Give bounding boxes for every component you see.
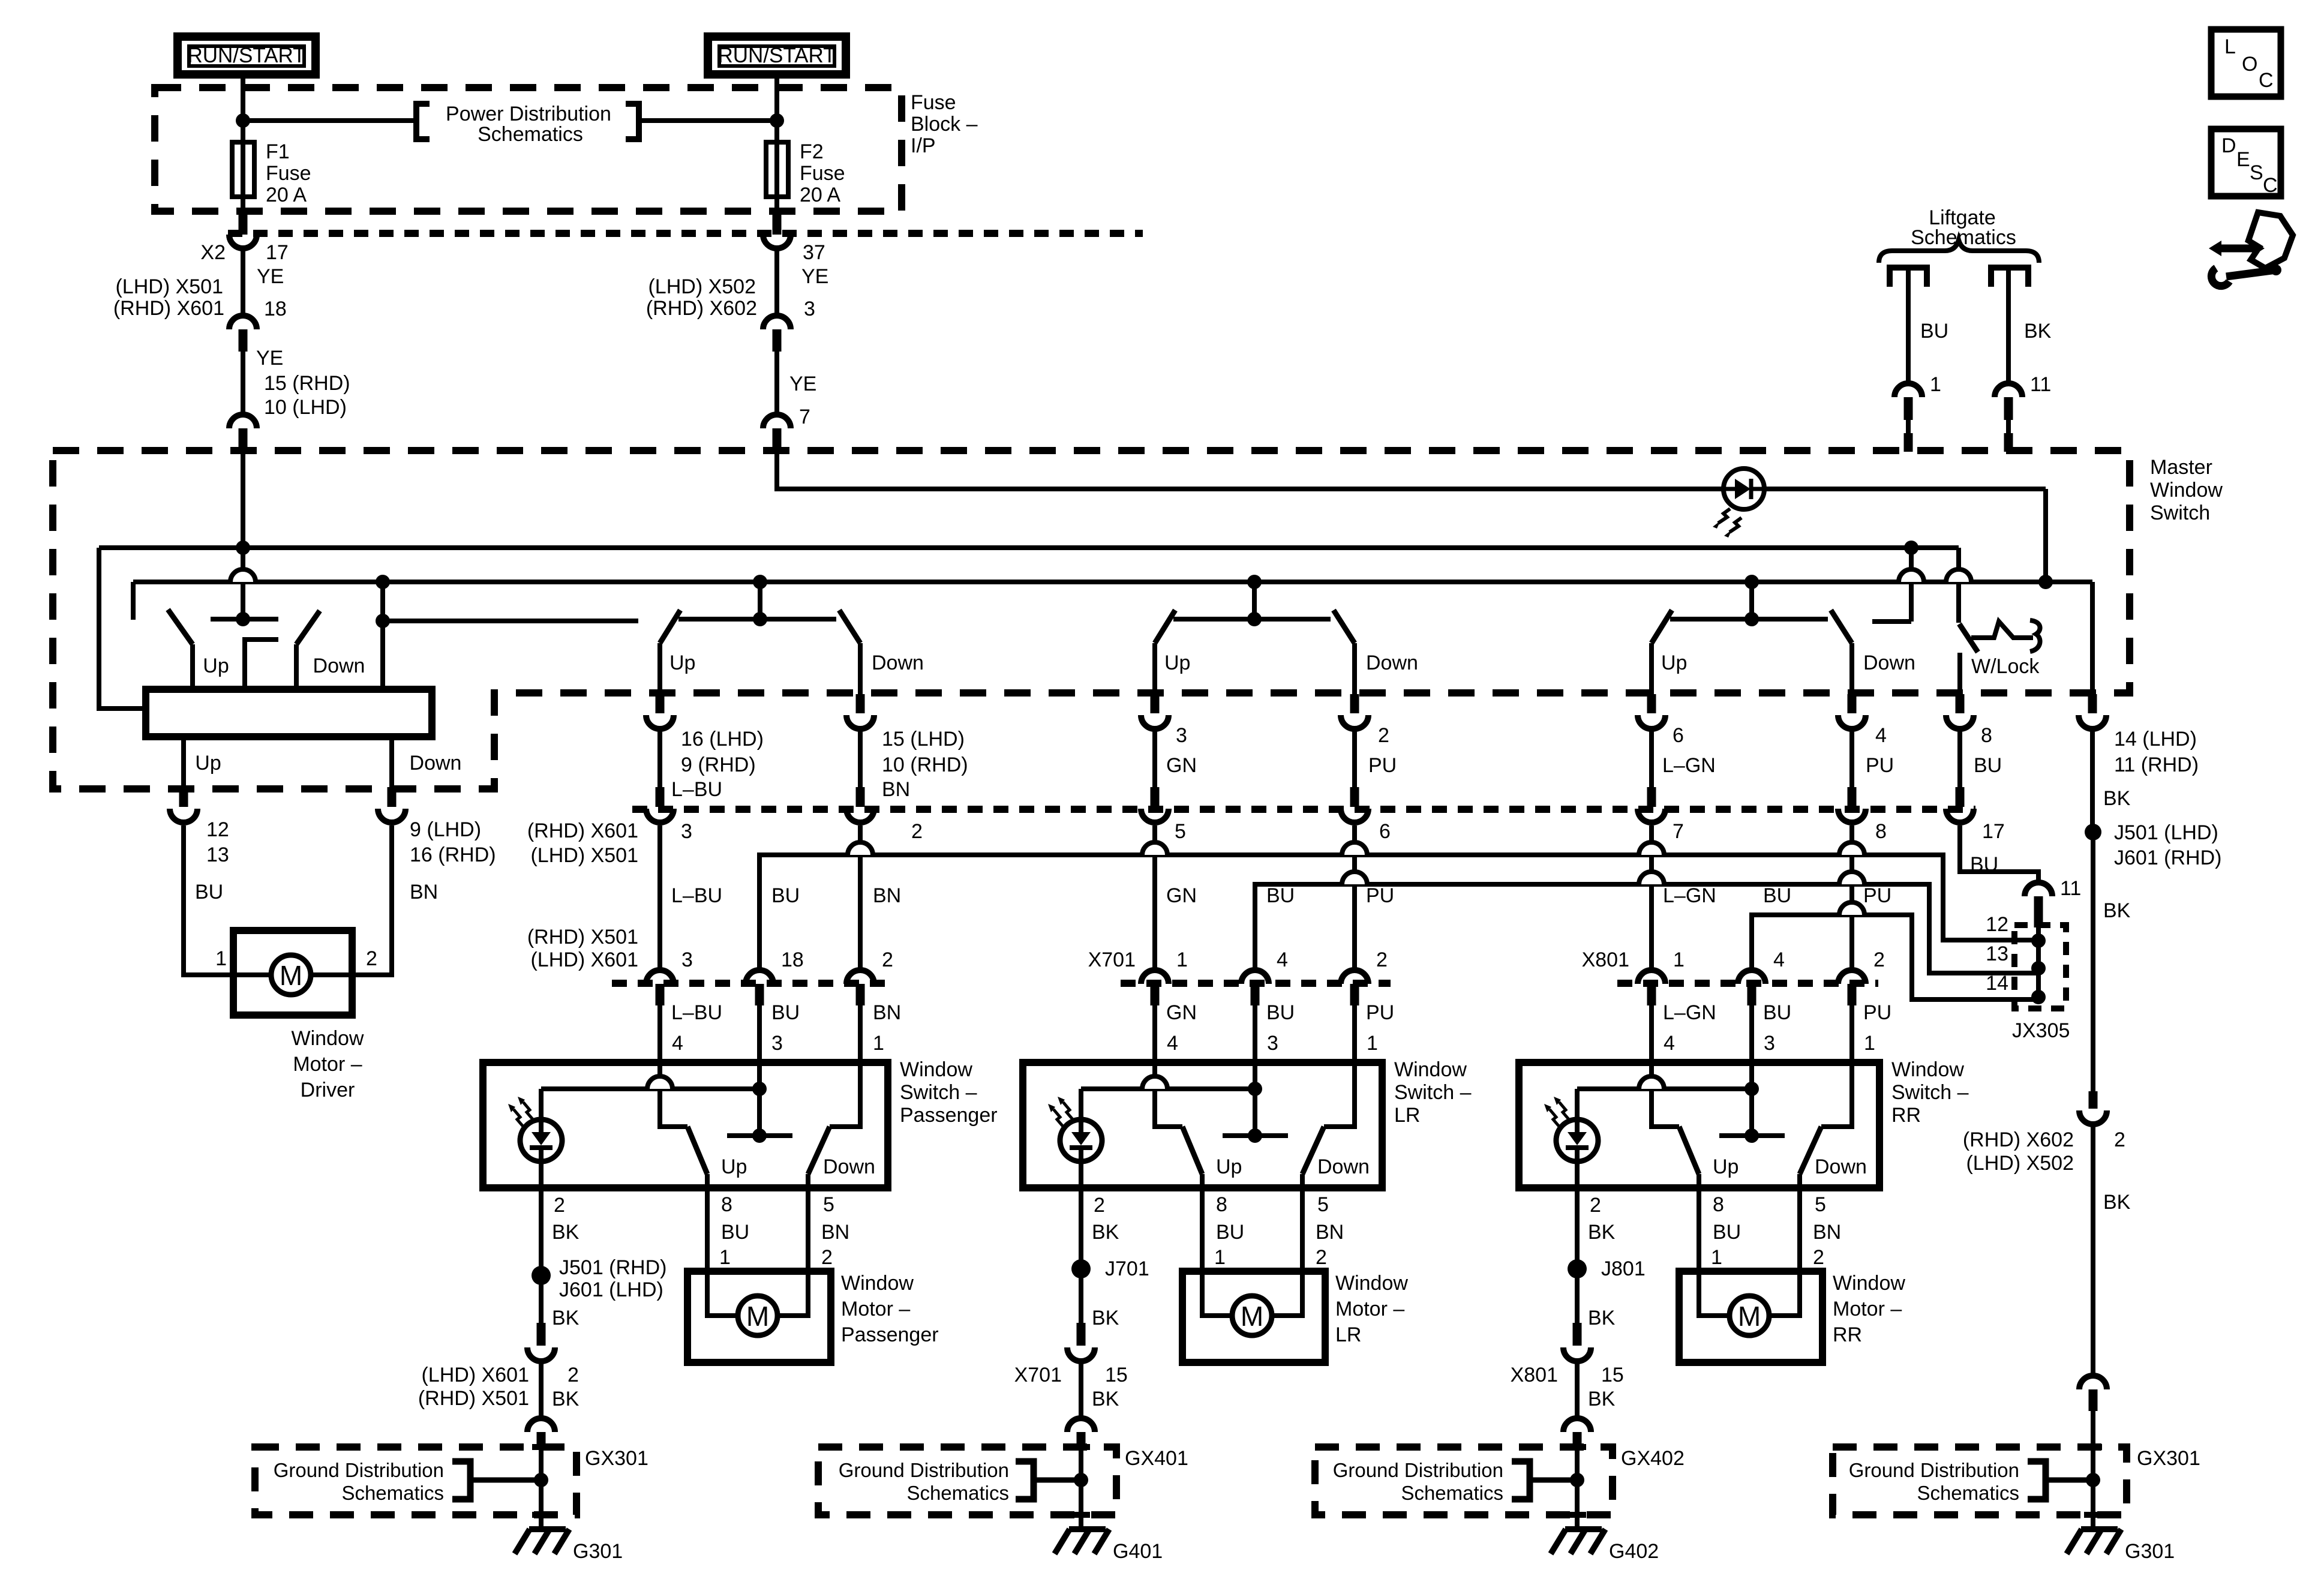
W/Lock latch symbol: [1971, 622, 2033, 638]
connector (RHD) X602 / (LHD) X502 pin 2: [2089, 1091, 2098, 1109]
svg-text:17: 17: [266, 241, 289, 264]
connector row 2 X801 dashed line (RR): [1617, 980, 1878, 987]
svg-text:E: E: [2236, 148, 2250, 171]
svg-text:(RHD) X601: (RHD) X601: [113, 297, 224, 320]
svg-text:GN: GN: [1166, 754, 1197, 777]
wire RR down contact: [1821, 1062, 1852, 1127]
connector row1 pin 3: [656, 787, 665, 807]
legend box LOC: [2211, 29, 2281, 97]
connector driver down pin: [388, 787, 397, 807]
switch arm RR Down: [1800, 1127, 1821, 1174]
svg-text:GX301: GX301: [2137, 1447, 2200, 1470]
switch arm passenger Up (master): [660, 610, 680, 643]
wire bus2 right drop: [2090, 582, 2095, 694]
window motor driver box: [233, 930, 352, 1015]
wire LED RR to pin 2: [1575, 1089, 1580, 1188]
connector into ground splice pack: [1563, 1418, 1591, 1432]
node junction bus2 LR feed: [1247, 575, 1262, 589]
window motor RR box: [1679, 1271, 1822, 1362]
svg-text:4: 4: [1773, 948, 1785, 971]
svg-text:BU: BU: [1974, 754, 2002, 777]
svg-text:BU: BU: [1763, 1001, 1791, 1024]
liftgate wire into master switch: [1906, 420, 1911, 436]
wire F1 to connector X2: [241, 197, 245, 216]
svg-text:M: M: [746, 1301, 769, 1332]
connector pin at master switch bottom x=2753: [1647, 694, 1656, 713]
wire row2 into window switch x=3087: [1849, 1005, 1854, 1062]
switch arm LR Up: [1182, 1127, 1202, 1174]
svg-text:LR: LR: [1335, 1323, 1361, 1346]
svg-text:C: C: [2263, 174, 2278, 197]
svg-text:M: M: [1241, 1301, 1263, 1332]
wire LED Passenger to pin 2: [539, 1089, 544, 1188]
wire splice to connector: [539, 1275, 544, 1323]
svg-text:I/P: I/P: [911, 134, 936, 157]
wire passenger BU jumper to JX305 pin 12: [759, 855, 2038, 970]
svg-text:M: M: [1738, 1301, 1761, 1332]
svg-text:Switch: Switch: [2150, 502, 2210, 524]
svg-text:PU: PU: [1866, 754, 1894, 777]
ground G301: [529, 1526, 566, 1532]
wire row2 into window switch x=2258: [1352, 1005, 1357, 1062]
svg-text:2: 2: [821, 1246, 833, 1269]
svg-text:2: 2: [366, 947, 377, 970]
svg-text:16 (LHD): 16 (LHD): [681, 728, 764, 751]
RR contact segment: [1670, 617, 1828, 622]
svg-text:BK: BK: [2024, 320, 2052, 343]
switch arm driver Up: [168, 610, 193, 644]
svg-text:Motor –: Motor –: [293, 1053, 362, 1076]
wire BU from pin17 to connector 11: [1960, 825, 2038, 881]
connector driver up pin: [179, 787, 188, 807]
svg-text:2: 2: [882, 948, 893, 971]
svg-text:(LHD) X501: (LHD) X501: [530, 844, 638, 867]
svg-text:8: 8: [1875, 820, 1887, 843]
svg-text:Schematics: Schematics: [1917, 1482, 2019, 1504]
wire RR common: [1749, 1062, 1754, 1136]
svg-text:Driver: Driver: [301, 1079, 355, 1101]
svg-text:18: 18: [781, 948, 804, 971]
bus 2 (window feed bus): [133, 580, 2092, 584]
fuse block inner connector row X2/X502 dotted line: [228, 230, 1143, 237]
wire LED line drop to bus2: [2043, 489, 2048, 582]
svg-text:BU: BU: [1713, 1221, 1741, 1244]
wire bus2 drop to LR contact segment: [1252, 582, 1257, 619]
Passenger common T-bar: [727, 1133, 792, 1138]
connector row1 pin 17: [1956, 787, 1965, 807]
bracket for Power Distribution Schematics (left): [416, 104, 430, 139]
wire F1 into master switch down to bus: [241, 452, 245, 571]
svg-text:GX402: GX402: [1621, 1447, 1685, 1470]
LED Passenger switch: [520, 1119, 562, 1161]
svg-text:2: 2: [1316, 1246, 1327, 1269]
wire master pin to connector row 1 x=2258: [1352, 731, 1357, 787]
svg-text:Up: Up: [1164, 652, 1190, 674]
node junction LED-bus2: [2038, 575, 2053, 589]
svg-text:L–GN: L–GN: [1662, 754, 1716, 777]
svg-text:BU: BU: [195, 881, 223, 903]
svg-text:GX301: GX301: [585, 1447, 648, 1470]
wire row1 to row2 x=1925: [1152, 825, 1157, 970]
svg-text:(LHD) X601: (LHD) X601: [421, 1364, 529, 1386]
svg-text:Window: Window: [292, 1027, 364, 1050]
wire to power distribution bracket left: [243, 118, 416, 123]
LR contact segment: [1173, 617, 1331, 622]
wire F2 to connector X502: [774, 197, 779, 216]
svg-text:Up: Up: [195, 752, 221, 775]
svg-text:4: 4: [1875, 724, 1887, 747]
junction splice J801: [1568, 1259, 1587, 1278]
legend box DESC: [2211, 129, 2281, 196]
svg-text:7: 7: [1673, 820, 1684, 843]
svg-text:4: 4: [1277, 948, 1288, 971]
connector X2 pin 17: [239, 215, 248, 235]
connector row1 pin 2: [856, 787, 865, 807]
svg-text:11 (RHD): 11 (RHD): [2114, 754, 2199, 776]
svg-text:2: 2: [1378, 724, 1389, 747]
svg-text:14: 14: [1986, 972, 2008, 995]
svg-text:BK: BK: [552, 1221, 580, 1244]
connector (LHD) X502 / (RHD) X602 pin 3: [763, 316, 791, 329]
wire inside ground box: [539, 1447, 544, 1527]
svg-text:4: 4: [1167, 1032, 1178, 1055]
connector pin at master switch bottom x=1434: [856, 694, 865, 713]
svg-text:Up: Up: [669, 652, 695, 674]
LED RR switch: [1556, 1119, 1598, 1161]
svg-text:(RHD) X602: (RHD) X602: [646, 297, 757, 320]
svg-text:6: 6: [1673, 724, 1684, 747]
svg-text:6: 6: [1379, 820, 1391, 843]
connector row2 pin 18: [746, 970, 773, 984]
wire driver up to motor: [184, 825, 271, 975]
wire to body connector: [539, 1364, 544, 1416]
svg-text:2: 2: [1376, 948, 1388, 971]
power node RUN/START (right): [708, 37, 846, 74]
svg-text:Motor –: Motor –: [1833, 1298, 1902, 1320]
window switch LR box: [1023, 1062, 1382, 1188]
svg-text:GN: GN: [1166, 1001, 1197, 1024]
connector (LHD) X501 / (RHD) X601 pin 18: [229, 316, 257, 329]
svg-text:2: 2: [1813, 1246, 1824, 1269]
svg-text:Down: Down: [1815, 1155, 1867, 1178]
connector row1 pin 7: [1647, 787, 1656, 807]
svg-text:1: 1: [1930, 373, 1941, 396]
liftgate connector bracket left: [1890, 268, 1927, 287]
wire LED RR top link: [1577, 1086, 1752, 1091]
power node RUN/START (left): [178, 37, 316, 74]
svg-text:5: 5: [1175, 820, 1186, 843]
svg-text:S: S: [2250, 161, 2263, 184]
svg-text:Block –: Block –: [911, 113, 978, 136]
liftgate connector bracket right: [1991, 268, 2028, 287]
LED arrows (emission): [1718, 509, 1730, 523]
driver common link to rocker bar: [245, 640, 278, 689]
svg-text:Up: Up: [203, 655, 229, 677]
wire X2-17 to X501-18: [241, 251, 245, 314]
svg-text:Down: Down: [823, 1155, 875, 1178]
svg-text:1: 1: [1214, 1246, 1226, 1269]
switch arm passenger Down (master): [839, 610, 860, 643]
svg-text:Down: Down: [1317, 1155, 1370, 1178]
window motor Passenger box: [687, 1271, 831, 1362]
bracket ground distribution (right): [2028, 1461, 2046, 1499]
svg-text:L–GN: L–GN: [1663, 1001, 1716, 1024]
wire X502-37 to X502-3: [774, 251, 779, 314]
svg-text:Motor –: Motor –: [841, 1298, 910, 1320]
ground G301 (right): [2081, 1526, 2118, 1532]
switch arm RR Down (master): [1831, 610, 1852, 643]
svg-text:BK: BK: [2103, 787, 2131, 810]
svg-text:(RHD) X602: (RHD) X602: [1963, 1128, 2074, 1151]
svg-text:BN: BN: [882, 778, 910, 801]
passenger contact segment: [678, 617, 836, 622]
svg-text:RUN/START: RUN/START: [717, 44, 836, 67]
svg-text:Window: Window: [1335, 1272, 1408, 1295]
connector row2 pin 2: [1341, 970, 1368, 984]
node junction bus2 passenger feed: [753, 575, 767, 589]
svg-text:3: 3: [681, 820, 692, 843]
svg-text:L–GN: L–GN: [1663, 884, 1716, 907]
svg-text:Passenger: Passenger: [841, 1323, 939, 1346]
connector into GX301 splice pack (right): [2079, 1376, 2107, 1389]
wire driver rocker Down output: [389, 737, 394, 787]
connector pin into master window switch (driver feed): [229, 415, 257, 428]
node A junction dot at F1 feed: [236, 113, 250, 128]
svg-text:BK: BK: [2103, 1191, 2131, 1214]
LR common T-bar: [1223, 1133, 1288, 1138]
wire from RUN/START left to fuse F1: [241, 77, 245, 144]
LED LR switch: [1060, 1119, 1102, 1161]
wire splice to connector: [1079, 1269, 1083, 1323]
switch arm Passenger Up: [687, 1127, 707, 1174]
svg-text:Up: Up: [721, 1155, 747, 1178]
svg-text:(LHD) X501: (LHD) X501: [115, 275, 223, 298]
wire LR up contact: [1155, 1062, 1182, 1127]
svg-text:L–BU: L–BU: [671, 778, 722, 801]
svg-text:Switch –: Switch –: [900, 1081, 977, 1104]
wire into ground box right: [2091, 1411, 2095, 1527]
svg-text:5: 5: [823, 1193, 834, 1216]
wire row1 to row2 x=2753: [1649, 825, 1654, 970]
legend icon arrow and wrench: [2218, 245, 2256, 253]
svg-text:BK: BK: [1588, 1307, 1616, 1329]
svg-text:BK: BK: [1092, 1307, 1119, 1329]
wire to body connector: [1575, 1364, 1580, 1416]
connector row2 pin 4: [1241, 970, 1269, 984]
connector pin 11 (JX305): [2025, 882, 2052, 896]
svg-text:5: 5: [1815, 1193, 1826, 1216]
liftgate connector pin 1: [1894, 383, 1922, 397]
switch arm LR Down (master): [1334, 610, 1355, 643]
window switch RR box: [1519, 1062, 1879, 1188]
connector row1 pin 5: [1151, 787, 1160, 807]
svg-text:(RHD) X501: (RHD) X501: [418, 1387, 529, 1410]
svg-text:PU: PU: [1863, 884, 1891, 907]
svg-text:1: 1: [719, 1246, 731, 1269]
svg-text:BU: BU: [771, 884, 800, 907]
svg-text:1: 1: [215, 947, 227, 970]
svg-text:D: D: [2221, 134, 2236, 157]
svg-text:17: 17: [1982, 820, 2005, 843]
svg-text:12: 12: [1986, 913, 2008, 936]
wire master pin to connector row 1 x=1100: [657, 731, 662, 787]
wire driver down to motor: [311, 825, 392, 975]
svg-text:Up: Up: [1713, 1155, 1739, 1178]
connector row2 pin 3: [646, 970, 674, 984]
wire master pin to connector row 1 x=1925: [1152, 731, 1157, 787]
wire LR switch pin5 to motor: [1271, 1188, 1302, 1316]
connector row 2 X501/X601 dashed line (passenger): [612, 980, 894, 987]
svg-text:(RHD) X601: (RHD) X601: [527, 819, 638, 842]
wire inside ground box: [1575, 1447, 1580, 1527]
svg-text:1: 1: [1711, 1246, 1722, 1269]
fuse F1 20A: [232, 142, 254, 197]
svg-text:18: 18: [264, 298, 287, 320]
wire master pin to connector row 1 x=3087: [1849, 731, 1854, 787]
node junction bus2-driver down: [376, 575, 390, 589]
connector pin at master switch bottom x=2258: [1350, 694, 1359, 713]
svg-text:GX401: GX401: [1125, 1447, 1188, 1470]
wire row1 to row2 x=2258: [1352, 825, 1357, 970]
svg-text:O: O: [2242, 53, 2257, 76]
svg-text:2: 2: [911, 820, 923, 843]
svg-text:F1: F1: [266, 140, 290, 163]
svg-text:2: 2: [1094, 1194, 1105, 1217]
wire LR common: [1253, 1062, 1257, 1136]
liftgate wire BU: [1906, 268, 1911, 383]
svg-text:Schematics: Schematics: [341, 1482, 444, 1504]
svg-text:BU: BU: [1763, 884, 1791, 907]
svg-text:J701: J701: [1105, 1257, 1149, 1280]
svg-text:4: 4: [1664, 1032, 1675, 1055]
svg-text:LR: LR: [1394, 1104, 1420, 1127]
wire to body connector: [1079, 1364, 1083, 1416]
motor M driver: [271, 955, 311, 995]
svg-text:Master: Master: [2150, 456, 2212, 479]
wire RR BU jumper to JX305 pin 14: [1752, 915, 2038, 999]
wire from bracket to F2 feed: [639, 118, 777, 123]
node junction ground right: [2086, 1473, 2100, 1487]
svg-text:1: 1: [1864, 1032, 1875, 1055]
connector into ground splice pack: [1067, 1418, 1095, 1432]
svg-text:G301: G301: [573, 1540, 623, 1563]
wire G301 BK from switch: [539, 1188, 544, 1275]
svg-text:1: 1: [873, 1032, 884, 1055]
svg-text:13: 13: [1986, 942, 2008, 965]
connector row1 pin 6: [1350, 787, 1359, 807]
bracket ground distribution GX402: [1512, 1461, 1530, 1499]
svg-text:20 A: 20 A: [266, 184, 307, 206]
wire LED Passenger top link: [541, 1086, 759, 1091]
wire LR down contact: [1324, 1062, 1355, 1127]
svg-text:11: 11: [2030, 373, 2051, 396]
svg-text:J501 (RHD): J501 (RHD): [559, 1256, 666, 1279]
switch arm W/Lock: [1959, 624, 1978, 652]
bus 1 (w/lock feed bus): [99, 545, 1959, 550]
liftgate connector pin 11: [1995, 383, 2022, 397]
svg-text:Down: Down: [410, 752, 462, 775]
svg-text:(LHD) X502: (LHD) X502: [648, 275, 756, 298]
svg-text:3: 3: [681, 948, 693, 971]
ground G402: [1565, 1526, 1602, 1532]
wire row2 into window switch x=1100: [657, 1005, 662, 1062]
svg-text:Fuse: Fuse: [266, 162, 311, 185]
svg-text:BK: BK: [1588, 1388, 1616, 1410]
svg-text:8: 8: [721, 1193, 732, 1216]
wire master pin to connector row 1 x=3267: [1957, 731, 1962, 787]
svg-text:BU: BU: [1266, 1001, 1295, 1024]
LED indicator master switch: [1724, 469, 1764, 509]
svg-text:BU: BU: [1266, 884, 1295, 907]
wire from RUN/START right to fuse F2: [774, 77, 779, 144]
svg-text:Window: Window: [1394, 1058, 1467, 1081]
svg-text:PU: PU: [1366, 1001, 1394, 1024]
connector X502 pin 37: [773, 215, 782, 235]
svg-text:Switch –: Switch –: [1394, 1081, 1472, 1104]
svg-text:2: 2: [1873, 948, 1885, 971]
svg-text:BU: BU: [1216, 1221, 1244, 1244]
wire RR up contact: [1652, 1062, 1679, 1127]
connector pin at master switch bottom x=3488: [2088, 694, 2097, 713]
connector pin 7 into master window switch: [763, 415, 791, 428]
svg-text:1: 1: [1673, 948, 1685, 971]
svg-text:Power Distribution: Power Distribution: [446, 103, 611, 125]
wire bus1 left drop to driver rocker bar: [99, 548, 146, 709]
svg-text:Fuse: Fuse: [911, 91, 956, 114]
motor M LR: [1232, 1296, 1272, 1335]
connector row 2 X701 dashed line (LR): [1121, 980, 1391, 987]
svg-text:BK: BK: [2103, 899, 2131, 922]
node junction driver common: [236, 612, 250, 626]
connector pin at master switch bottom x=3267: [1956, 694, 1965, 713]
driver rocker bar: [146, 689, 432, 737]
switch arm LR Up (master): [1155, 610, 1175, 643]
svg-text:Ground Distribution: Ground Distribution: [274, 1459, 444, 1481]
svg-text:PU: PU: [1368, 754, 1397, 777]
connector row 1 X501/X601 dashed line: [632, 806, 1975, 813]
junction splice J501: [532, 1266, 551, 1285]
svg-text:G401: G401: [1113, 1540, 1163, 1563]
svg-text:9 (RHD): 9 (RHD): [681, 754, 756, 776]
svg-text:13: 13: [206, 843, 229, 866]
wire RR switch pin8 to motor: [1699, 1188, 1730, 1316]
node JX305 pin 13: [2031, 961, 2046, 975]
svg-text:X801: X801: [1582, 948, 1629, 971]
connector pin 2/15 (G401 column): [1077, 1323, 1086, 1346]
svg-text:F2: F2: [800, 140, 824, 163]
ground distribution dashed box GX402: [1315, 1447, 1613, 1515]
svg-text:2: 2: [1590, 1194, 1601, 1217]
svg-text:BN: BN: [873, 884, 901, 907]
connector pin 2/15 (G402 column): [1573, 1323, 1582, 1346]
fuse block I/P dashed box: [155, 88, 902, 211]
svg-text:JX305: JX305: [2012, 1019, 2070, 1042]
connector pin 2/15 (G301 column): [537, 1323, 546, 1346]
svg-text:BN: BN: [410, 881, 438, 903]
svg-text:Down: Down: [1366, 652, 1418, 674]
svg-text:Ground Distribution: Ground Distribution: [1849, 1459, 2019, 1481]
ground G401: [1069, 1526, 1106, 1532]
svg-text:C: C: [2259, 69, 2274, 92]
svg-text:RR: RR: [1891, 1104, 1921, 1127]
wire right BK pin to J splice: [2090, 731, 2095, 832]
svg-text:Down: Down: [313, 655, 365, 677]
svg-text:J801: J801: [1601, 1257, 1646, 1280]
svg-text:1: 1: [1176, 948, 1188, 971]
wire RR switch pin5 to motor: [1768, 1188, 1800, 1316]
svg-text:RR: RR: [1833, 1323, 1862, 1346]
svg-text:10 (LHD): 10 (LHD): [264, 396, 347, 419]
